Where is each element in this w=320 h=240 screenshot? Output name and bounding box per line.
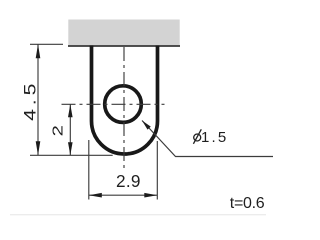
extension line bottom (4.5 / 2) (30, 154, 113, 156)
svg-text:4.5: 4.5 (21, 80, 40, 121)
phi symbol circle (194, 134, 201, 141)
svg-text:t=0.6: t=0.6 (230, 195, 265, 212)
leader arrowhead (140, 119, 150, 130)
svg-text:2.9: 2.9 (116, 171, 141, 191)
dimension line 2.9 (89, 194, 158, 196)
horizontal centerline (62, 103, 165, 105)
extension line right (2.9) (156, 141, 158, 200)
dimension line 4.5 (37, 44, 39, 155)
arrow up 4.5 (36, 44, 41, 58)
faint table rule at bottom (10, 214, 266, 216)
hole circle (φ1.5) (105, 86, 142, 123)
leader line φ1.5 (142, 121, 273, 157)
body bottom edge (68, 45, 180, 47)
phi symbol slash (193, 129, 201, 144)
svg-text:2: 2 (49, 125, 66, 136)
U-shaped terminal outline (92, 46, 158, 155)
vertical centerline (123, 47, 125, 168)
body block (gray housing) (68, 20, 179, 46)
dimension line 2 (69, 104, 71, 155)
extension line top (4.5) (30, 43, 63, 45)
svg-text:1.5: 1.5 (201, 129, 228, 146)
arrow down 2 (68, 142, 73, 155)
arrow up 2 (68, 104, 73, 117)
arrow down 4.5 (36, 141, 41, 155)
arrow right 2.9 (144, 193, 157, 198)
extension line left (2.9) (88, 140, 90, 200)
arrow left 2.9 (89, 193, 102, 198)
